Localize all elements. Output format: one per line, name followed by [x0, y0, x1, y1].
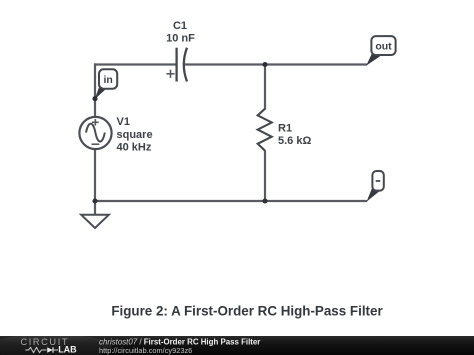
resistor R1 — [258, 109, 272, 151]
resistor R1 value label — [278, 122, 311, 147]
junction dot top right — [262, 62, 267, 67]
junction dot at ground — [92, 198, 97, 203]
svg-text:V1: V1 — [117, 116, 130, 128]
svg-text:5.6 kΩ: 5.6 kΩ — [278, 135, 311, 147]
node minus flag — [367, 171, 384, 202]
svg-text:Figure 2: A First-Order RC Hig: Figure 2: A First-Order RC High-Pass Fil… — [111, 304, 383, 319]
wire right vertical lower — [264, 150, 266, 202]
svg-text:http://circuitlab.com/cy923z6: http://circuitlab.com/cy923z6 — [99, 346, 192, 355]
svg-text:LAB: LAB — [58, 345, 77, 355]
junction dot at in node — [92, 96, 97, 101]
svg-text:square: square — [117, 129, 153, 141]
footer logo CIRCUIT — [21, 337, 70, 347]
svg-text:out: out — [375, 41, 392, 53]
ground — [81, 201, 109, 228]
wire bottom horizontal — [94, 200, 367, 202]
voltage source V1 — [79, 117, 111, 149]
junction dot bottom right — [262, 198, 267, 203]
node in flag — [95, 69, 118, 99]
capacitor C1 value label — [166, 20, 195, 45]
voltage source V1 label — [117, 116, 153, 154]
node out flag — [366, 36, 395, 66]
svg-text:R1: R1 — [278, 122, 292, 134]
caption — [111, 304, 383, 319]
footer logo LAB — [58, 345, 77, 355]
footer bar — [0, 334, 474, 355]
wire top horizontal left segment — [94, 63, 177, 65]
footer url line — [99, 346, 192, 355]
svg-text:C1: C1 — [173, 20, 187, 32]
capacitor C1 — [166, 48, 187, 82]
wire top horizontal right segment — [185, 63, 367, 65]
footer logo resistor-diode glyph — [25, 347, 58, 352]
svg-text:40 kHz: 40 kHz — [117, 141, 152, 153]
footer attribution line — [99, 338, 260, 347]
svg-text:10 nF: 10 nF — [166, 33, 195, 45]
svg-text:in: in — [104, 74, 113, 86]
wire left vertical — [94, 63, 96, 201]
wire right vertical upper — [264, 63, 266, 109]
